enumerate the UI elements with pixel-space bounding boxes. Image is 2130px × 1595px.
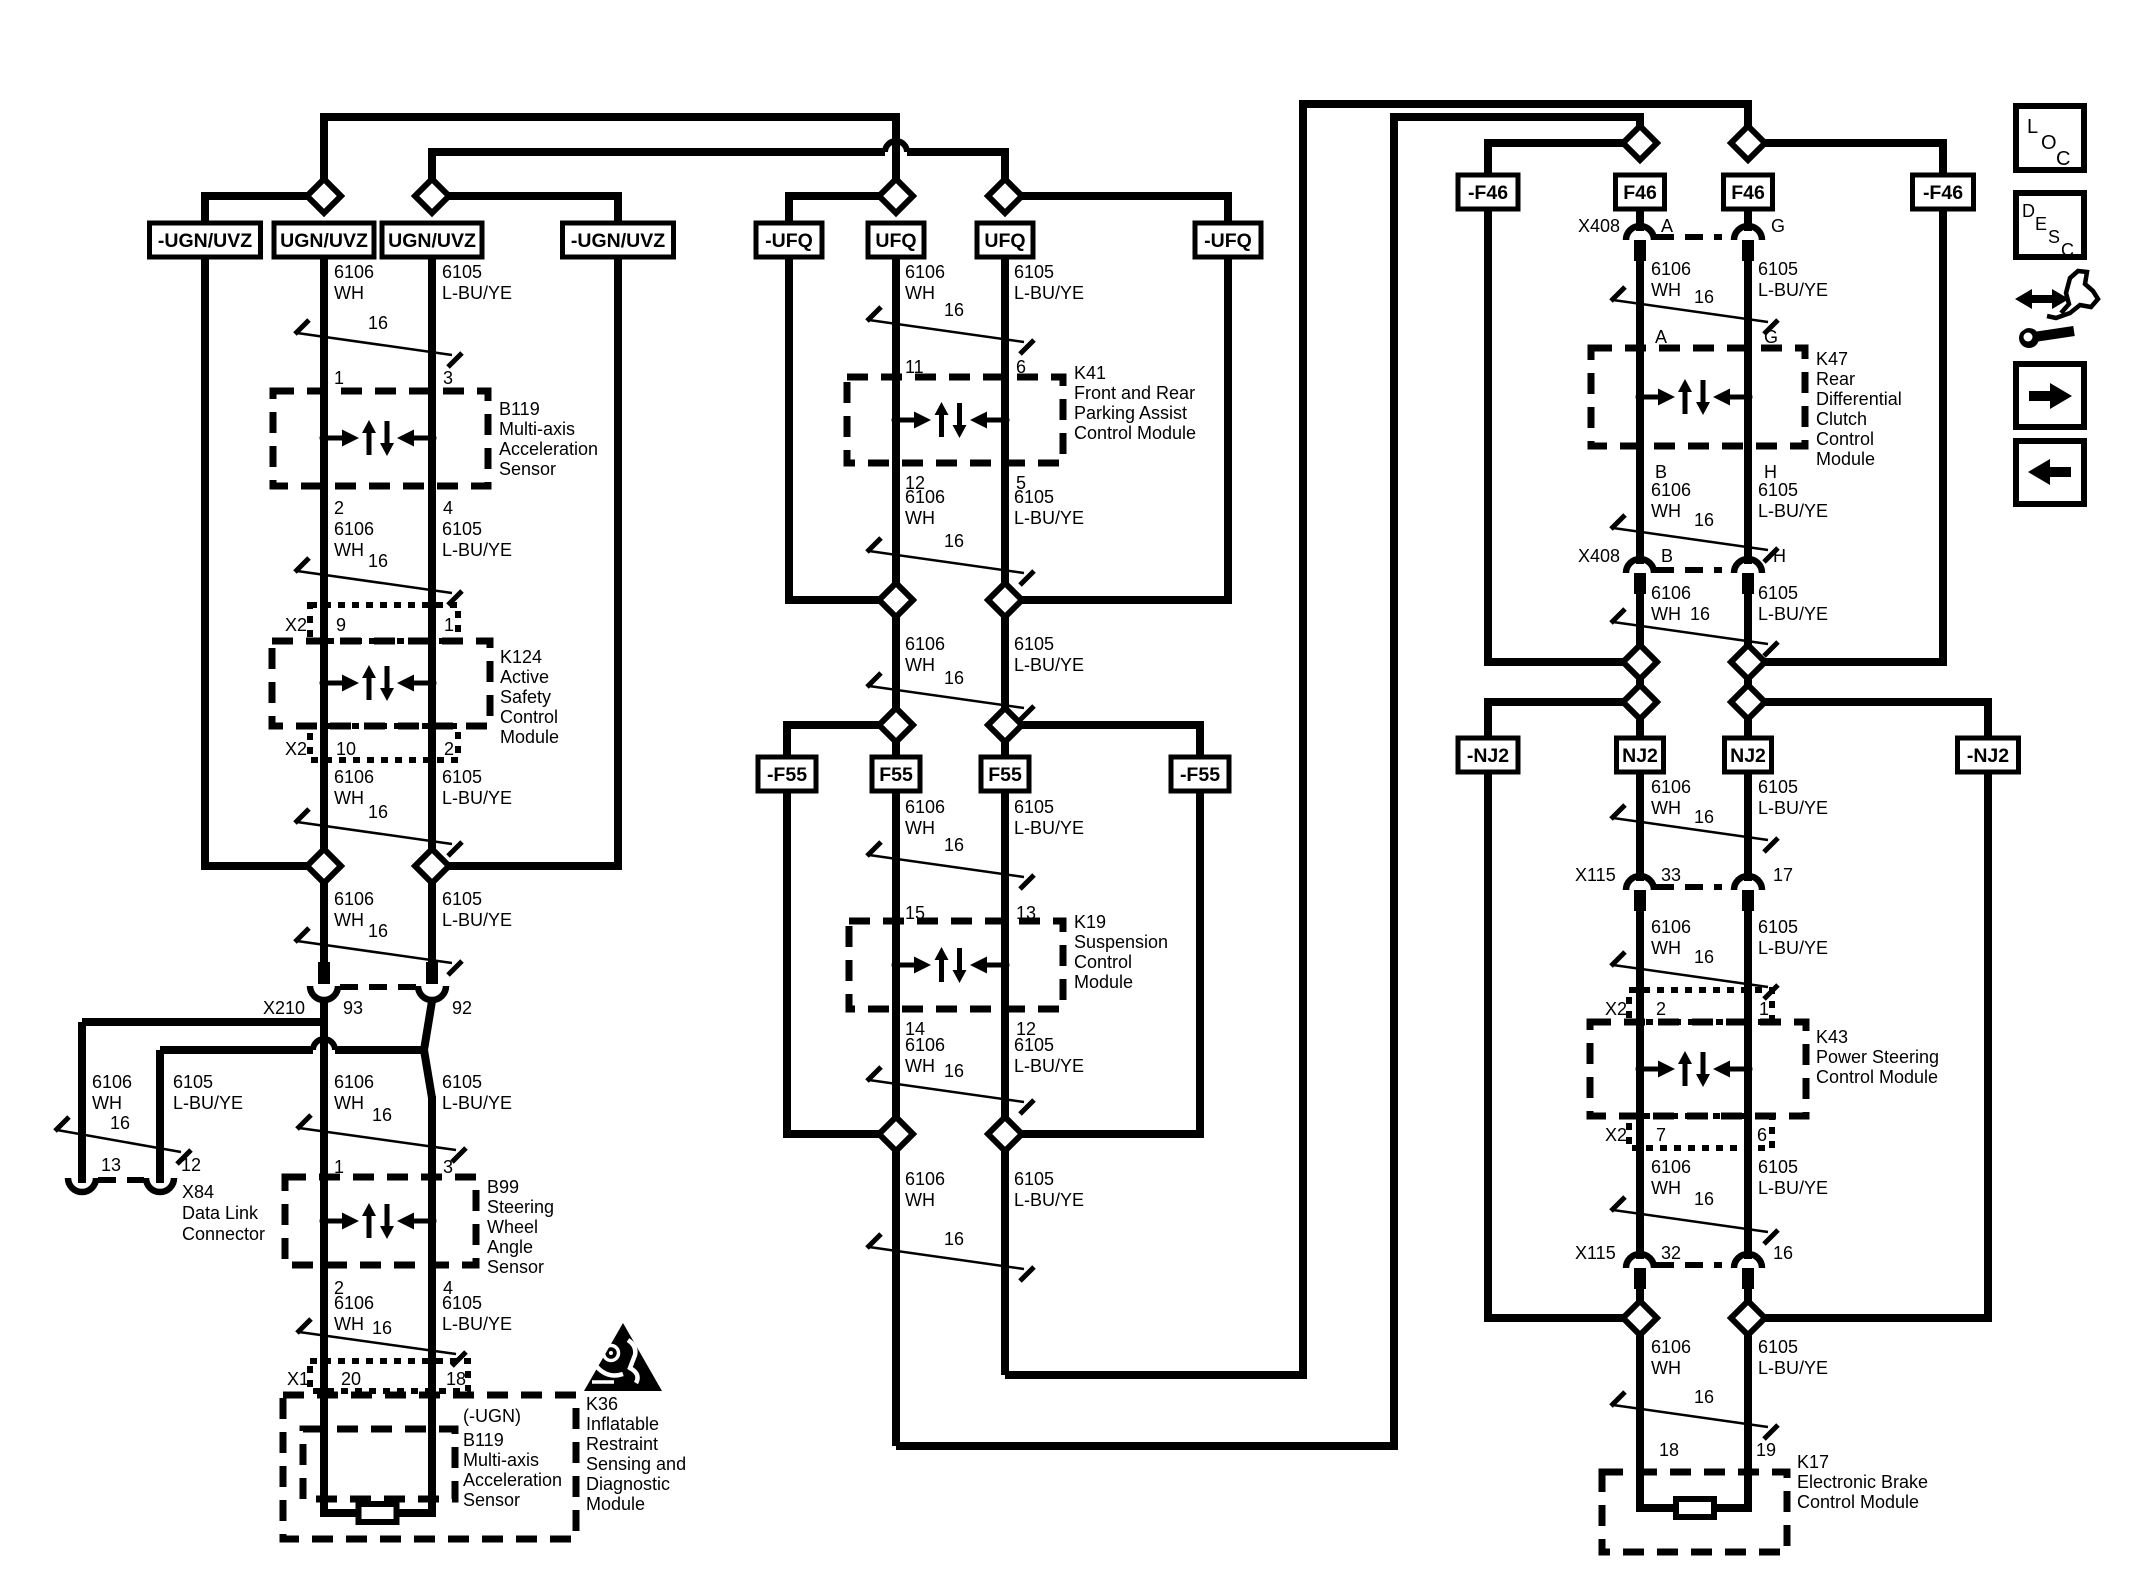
svg-text:6106: 6106	[334, 1072, 374, 1092]
svg-text:WH: WH	[1651, 1178, 1681, 1198]
svg-text:6105: 6105	[1758, 480, 1798, 500]
svg-text:6105: 6105	[1014, 634, 1054, 654]
twisted pair symbol 16	[297, 1115, 311, 1129]
wire -UFQ left return	[789, 257, 896, 600]
svg-text:13: 13	[101, 1155, 121, 1175]
svg-text:NJ2: NJ2	[1730, 745, 1766, 767]
svg-text:1: 1	[1759, 999, 1769, 1019]
svg-text:K19: K19	[1074, 912, 1106, 932]
svg-text:16: 16	[1694, 1387, 1714, 1407]
svg-text:2: 2	[444, 739, 454, 759]
wire NJ2 branch to -NJ2 right	[1748, 702, 1988, 738]
svg-text:WH: WH	[1651, 604, 1681, 624]
svg-text:O: O	[2041, 132, 2057, 154]
svg-text:Sensing and: Sensing and	[586, 1454, 686, 1474]
twisted pair symbol	[1611, 1197, 1625, 1211]
svg-text:X408: X408	[1578, 216, 1620, 236]
svg-text:6106: 6106	[334, 767, 374, 787]
svg-text:L-BU/YE: L-BU/YE	[1014, 283, 1084, 303]
svg-text:X2: X2	[285, 739, 307, 759]
svg-text:18: 18	[1659, 1440, 1679, 1460]
net box -F55 left	[758, 757, 816, 791]
wire F55 branch to -F55 right	[1005, 725, 1200, 757]
svg-text:Control Module: Control Module	[1797, 1492, 1919, 1512]
wire 6106 below X210 to K36	[320, 1001, 328, 1513]
icon left arrow box	[2016, 441, 2084, 504]
svg-text:6: 6	[1757, 1125, 1767, 1145]
svg-text:Control: Control	[1074, 952, 1132, 972]
wire -UFQ right return	[1005, 257, 1228, 600]
connector X210 pin 92	[426, 962, 438, 984]
svg-text:Sensor: Sensor	[463, 1490, 520, 1510]
svg-text:6106: 6106	[1651, 1157, 1691, 1177]
svg-text:WH: WH	[334, 540, 364, 560]
wire -NJ2 left return	[1488, 772, 1640, 1318]
svg-text:4: 4	[443, 498, 453, 518]
wire -F46 left return	[1488, 209, 1640, 662]
svg-text:L-BU/YE: L-BU/YE	[442, 910, 512, 930]
svg-text:Acceleration: Acceleration	[499, 439, 598, 459]
connector X210 pin 93	[318, 962, 330, 984]
sensor B119 inner box in K36	[303, 1429, 455, 1499]
svg-text:6106: 6106	[905, 1035, 945, 1055]
svg-text:-F55: -F55	[1180, 764, 1220, 786]
svg-text:6106: 6106	[334, 519, 374, 539]
svg-text:Active: Active	[500, 667, 549, 687]
svg-text:16: 16	[1694, 510, 1714, 530]
splice diamond F55 6105 top	[988, 708, 1022, 742]
svg-text:-UFQ: -UFQ	[1204, 230, 1252, 252]
svg-text:G: G	[1771, 216, 1785, 236]
svg-text:WH: WH	[905, 1056, 935, 1076]
svg-text:X2: X2	[1605, 1125, 1627, 1145]
svg-text:-F46: -F46	[1468, 182, 1508, 204]
wire branch to -UGN/UVZ left	[205, 196, 324, 224]
svg-text:Connector: Connector	[182, 1224, 265, 1244]
splice diamond -F46 6105	[1731, 645, 1765, 679]
svg-text:16: 16	[368, 921, 388, 941]
svg-text:Module: Module	[1074, 972, 1133, 992]
svg-text:Control Module: Control Module	[1074, 423, 1196, 443]
svg-text:6105: 6105	[1014, 262, 1054, 282]
svg-text:Module: Module	[500, 727, 559, 747]
svg-text:X84: X84	[182, 1182, 214, 1202]
svg-text:-NJ2: -NJ2	[1467, 745, 1509, 767]
twisted pair symbol 16	[295, 809, 309, 823]
svg-text:6106: 6106	[905, 262, 945, 282]
resistor element in K36	[359, 1504, 397, 1522]
svg-text:Acceleration: Acceleration	[463, 1470, 562, 1490]
svg-text:Multi-axis: Multi-axis	[463, 1450, 539, 1470]
connector X2 top of K124	[310, 605, 458, 641]
svg-text:L-BU/YE: L-BU/YE	[442, 788, 512, 808]
splice diamond left 6105 lower	[415, 849, 449, 883]
sensor B99 Steering Wheel Angle Sensor box	[285, 1177, 476, 1265]
svg-text:D: D	[2022, 201, 2035, 221]
svg-text:Module: Module	[586, 1494, 645, 1514]
airbag warning triangle	[584, 1323, 662, 1391]
module K41 Front and Rear Parking Assist Control Module box	[847, 377, 1063, 463]
splice diamond 6105 top-left	[415, 179, 449, 213]
connector X115 pin 16	[1734, 1254, 1762, 1268]
svg-text:16: 16	[1694, 287, 1714, 307]
svg-text:10: 10	[336, 739, 356, 759]
twisted pair symbol	[1611, 805, 1625, 819]
svg-text:6105: 6105	[1758, 259, 1798, 279]
svg-text:F55: F55	[879, 764, 913, 786]
svg-text:16: 16	[372, 1105, 392, 1125]
B119 arrows	[320, 420, 437, 456]
svg-text:Rear: Rear	[1816, 369, 1855, 389]
svg-text:Restraint: Restraint	[586, 1434, 658, 1454]
svg-text:WH: WH	[334, 1093, 364, 1113]
svg-text:12: 12	[181, 1155, 201, 1175]
twisted pair symbol 16	[295, 558, 309, 572]
svg-text:H: H	[1764, 462, 1777, 482]
net box -F46 right	[1913, 175, 1974, 209]
icon DESC box	[2016, 193, 2084, 257]
svg-text:6105: 6105	[1014, 797, 1054, 817]
icon right arrow box	[2016, 364, 2084, 427]
svg-text:UGN/UVZ: UGN/UVZ	[388, 230, 476, 252]
net box -UGN/UVZ right	[563, 223, 674, 257]
svg-text:3: 3	[443, 1157, 453, 1177]
svg-text:6106: 6106	[334, 1293, 374, 1313]
svg-text:16: 16	[368, 551, 388, 571]
svg-text:X2: X2	[285, 615, 307, 635]
svg-text:L-BU/YE: L-BU/YE	[1014, 1190, 1084, 1210]
twisted pair symbol 16	[867, 307, 881, 321]
svg-text:WH: WH	[905, 283, 935, 303]
svg-text:UGN/UVZ: UGN/UVZ	[280, 230, 368, 252]
wire F46 branch to -F46 left	[1488, 143, 1640, 175]
svg-text:WH: WH	[905, 508, 935, 528]
wire X84 6106 branch horizontal	[82, 1018, 324, 1026]
twisted pair symbol	[1611, 609, 1625, 623]
svg-text:Control Module: Control Module	[1816, 1067, 1938, 1087]
svg-text:-UGN/UVZ: -UGN/UVZ	[571, 230, 665, 252]
resistor element in K17	[1676, 1499, 1714, 1517]
svg-text:6105: 6105	[442, 767, 482, 787]
twisted pair symbol 16	[295, 928, 309, 942]
svg-text:H: H	[1773, 546, 1786, 566]
splice diamond F55 6105 bottom	[988, 1117, 1022, 1151]
svg-text:B: B	[1661, 546, 1673, 566]
svg-text:16: 16	[944, 1061, 964, 1081]
svg-text:6105: 6105	[1014, 1035, 1054, 1055]
svg-text:L-BU/YE: L-BU/YE	[1758, 1358, 1828, 1378]
svg-text:2: 2	[334, 498, 344, 518]
svg-text:Module: Module	[1816, 449, 1875, 469]
module K17 Electronic Brake Control Module box	[1602, 1472, 1787, 1552]
connector X408 pin B	[1626, 559, 1654, 573]
twisted pair symbol 16	[867, 673, 881, 687]
net box -UFQ left	[756, 223, 822, 257]
svg-text:Parking Assist: Parking Assist	[1074, 403, 1187, 423]
icon LOC box	[2016, 106, 2084, 170]
net box UFQ 6106	[868, 223, 924, 257]
svg-text:16: 16	[944, 531, 964, 551]
svg-text:K47: K47	[1816, 349, 1848, 369]
svg-text:WH: WH	[92, 1093, 122, 1113]
svg-text:-UGN/UVZ: -UGN/UVZ	[158, 230, 252, 252]
svg-text:F55: F55	[988, 764, 1022, 786]
splice diamond UFQ 6106	[879, 179, 913, 213]
svg-text:Power Steering: Power Steering	[1816, 1047, 1939, 1067]
svg-text:L-BU/YE: L-BU/YE	[173, 1093, 243, 1113]
svg-text:WH: WH	[1651, 1358, 1681, 1378]
splice diamond -UFQ 6105 bottom	[988, 583, 1022, 617]
svg-text:6105: 6105	[442, 1072, 482, 1092]
splice diamond NJ2 6105	[1731, 685, 1765, 719]
K124 arrows	[320, 665, 437, 701]
svg-text:WH: WH	[905, 655, 935, 675]
svg-text:6105: 6105	[442, 1293, 482, 1313]
wire 6105 bottom loop to right section	[1005, 104, 1748, 1375]
svg-text:6106: 6106	[1651, 480, 1691, 500]
twisted pair symbol 16	[295, 320, 309, 334]
svg-text:6106: 6106	[905, 634, 945, 654]
svg-text:16: 16	[944, 300, 964, 320]
svg-text:-NJ2: -NJ2	[1967, 745, 2009, 767]
splice diamond NJ2 6106	[1623, 685, 1657, 719]
net box NJ2 6105	[1725, 738, 1772, 772]
wire 6106 WH left column	[320, 257, 328, 966]
svg-text:C: C	[2056, 148, 2070, 170]
svg-text:Control: Control	[1816, 429, 1874, 449]
connector X408 dashed link 2	[1656, 567, 1722, 573]
svg-text:WH: WH	[334, 910, 364, 930]
module K43 Power Steering Control Module box	[1590, 1022, 1806, 1116]
net box -NJ2 left	[1458, 738, 1518, 772]
svg-text:L: L	[2027, 116, 2038, 138]
svg-text:Suspension: Suspension	[1074, 932, 1168, 952]
svg-text:NJ2: NJ2	[1622, 745, 1658, 767]
svg-text:L-BU/YE: L-BU/YE	[442, 540, 512, 560]
svg-text:Sensor: Sensor	[499, 459, 556, 479]
svg-text:Inflatable: Inflatable	[586, 1414, 659, 1434]
svg-text:6105: 6105	[173, 1072, 213, 1092]
svg-text:B119: B119	[463, 1430, 504, 1450]
svg-text:32: 32	[1661, 1243, 1681, 1263]
svg-text:X408: X408	[1578, 546, 1620, 566]
svg-text:F46: F46	[1623, 182, 1657, 204]
connector X115 dashed link	[1656, 884, 1722, 890]
connector X115 pin 17	[1734, 876, 1762, 890]
svg-text:7: 7	[1656, 1125, 1666, 1145]
connector X2 bottom of K43	[1629, 1116, 1772, 1148]
twisted pair symbol	[1611, 1392, 1625, 1406]
connector X2 top of K43	[1629, 990, 1772, 1022]
splice diamond 6106 top-left	[307, 179, 341, 213]
svg-text:(-UGN): (-UGN)	[463, 1406, 521, 1426]
svg-text:WH: WH	[905, 818, 935, 838]
twisted pair symbol 16	[867, 842, 881, 856]
svg-text:B119: B119	[499, 399, 540, 419]
svg-text:6106: 6106	[1651, 1337, 1691, 1357]
splice diamond F46 6105 top	[1731, 126, 1765, 160]
svg-text:K124: K124	[500, 647, 542, 667]
net box NJ2 6106	[1617, 738, 1664, 772]
svg-text:6106: 6106	[334, 262, 374, 282]
svg-text:B: B	[1655, 462, 1667, 482]
svg-text:X2: X2	[1605, 999, 1627, 1019]
svg-text:16: 16	[944, 668, 964, 688]
connector X115 pin 32	[1626, 1254, 1654, 1268]
connector X210 dashed link	[340, 984, 416, 990]
splice diamond UFQ 6105	[988, 179, 1022, 213]
svg-text:Wheel: Wheel	[487, 1217, 538, 1237]
net box UGN/UVZ 6105	[382, 223, 482, 257]
net box F46 6105	[1724, 175, 1773, 209]
wire F55 branch to -F55 left	[787, 725, 896, 757]
net box UFQ 6105	[977, 223, 1033, 257]
twisted pair symbol	[1611, 515, 1625, 529]
svg-text:6105: 6105	[1758, 777, 1798, 797]
connector X84 terminals	[68, 1178, 96, 1192]
connector X408 pin A	[1626, 226, 1654, 240]
splice diamond left 6106 lower	[307, 849, 341, 883]
svg-text:20: 20	[341, 1369, 361, 1389]
connector X2 bottom of K124	[310, 726, 458, 760]
svg-text:Steering: Steering	[487, 1197, 554, 1217]
wire F46 branch to -F46 right	[1748, 143, 1943, 175]
wire 6105 L-BU/YE middle column	[1001, 257, 1009, 1375]
svg-text:33: 33	[1661, 865, 1681, 885]
svg-text:1: 1	[334, 368, 344, 388]
svg-text:X210: X210	[263, 998, 305, 1018]
wire 6105 L-BU/YE left column	[428, 257, 436, 966]
svg-text:19: 19	[1756, 1440, 1776, 1460]
svg-text:WH: WH	[1651, 501, 1681, 521]
module K19 Suspension Control Module box	[849, 921, 1063, 1009]
svg-text:92: 92	[452, 998, 472, 1018]
svg-text:Electronic Brake: Electronic Brake	[1797, 1472, 1928, 1492]
svg-text:6106: 6106	[1651, 917, 1691, 937]
svg-text:WH: WH	[1651, 938, 1681, 958]
svg-text:16: 16	[1694, 947, 1714, 967]
svg-text:L-BU/YE: L-BU/YE	[1758, 1178, 1828, 1198]
svg-text:Angle: Angle	[487, 1237, 533, 1257]
icon wrench	[2012, 318, 2074, 348]
net box F46 6106	[1616, 175, 1665, 209]
svg-text:L-BU/YE: L-BU/YE	[1014, 508, 1084, 528]
K19 arrows	[892, 947, 1010, 983]
svg-text:6106: 6106	[334, 889, 374, 909]
svg-text:16: 16	[368, 313, 388, 333]
splice diamond -NJ2 6106 bottom	[1623, 1301, 1657, 1335]
svg-text:1: 1	[444, 615, 454, 635]
svg-text:6106: 6106	[92, 1072, 132, 1092]
wire -UGN/UVZ left return	[205, 257, 324, 866]
svg-text:WH: WH	[1651, 280, 1681, 300]
svg-text:L-BU/YE: L-BU/YE	[1758, 604, 1828, 624]
svg-text:L-BU/YE: L-BU/YE	[1758, 280, 1828, 300]
twisted pair symbol 16	[867, 538, 881, 552]
svg-text:Data Link: Data Link	[182, 1203, 259, 1223]
svg-text:16: 16	[1694, 1189, 1714, 1209]
connector X1 of K36	[310, 1361, 468, 1391]
svg-text:Diagnostic: Diagnostic	[586, 1474, 670, 1494]
wire 6106 WH right column	[1636, 209, 1644, 231]
svg-text:K41: K41	[1074, 363, 1106, 383]
svg-text:WH: WH	[334, 283, 364, 303]
svg-text:Clutch: Clutch	[1816, 409, 1867, 429]
svg-text:K17: K17	[1797, 1452, 1829, 1472]
svg-text:K36: K36	[586, 1394, 618, 1414]
B99 arrows	[320, 1203, 437, 1239]
net box -UGN/UVZ left	[150, 223, 261, 257]
wire -F55 left return	[787, 791, 896, 1134]
connector X115 dashed link 2	[1656, 1262, 1722, 1268]
wire 6105 second bus with hop over 6106 drop	[432, 152, 885, 196]
svg-text:L-BU/YE: L-BU/YE	[1014, 818, 1084, 838]
svg-text:Control: Control	[500, 707, 558, 727]
svg-text:X115: X115	[1575, 865, 1616, 885]
svg-text:18: 18	[446, 1369, 466, 1389]
svg-text:Front and Rear: Front and Rear	[1074, 383, 1195, 403]
svg-text:WH: WH	[1651, 798, 1681, 818]
svg-text:6106: 6106	[905, 1169, 945, 1189]
connector X408 pin H	[1734, 559, 1762, 573]
module K47 Rear Differential Clutch Control Module box	[1591, 348, 1805, 446]
svg-text:X115: X115	[1575, 1243, 1616, 1263]
svg-text:L-BU/YE: L-BU/YE	[442, 283, 512, 303]
wire NJ2 branch to -NJ2 left	[1488, 702, 1640, 738]
net box UGN/UVZ 6106	[274, 223, 374, 257]
module K124 Active Safety Control Module box	[272, 641, 490, 726]
wire -F46 right return	[1748, 209, 1943, 662]
svg-text:K43: K43	[1816, 1027, 1848, 1047]
svg-text:6105: 6105	[1758, 1337, 1798, 1357]
net box -F46 left	[1458, 175, 1518, 209]
wire -NJ2 right return	[1748, 772, 1988, 1318]
wire X84 6105 branch horizontal with hop	[160, 1046, 313, 1054]
wire 6106 WH middle column	[892, 257, 900, 1446]
svg-text:6105: 6105	[442, 889, 482, 909]
twisted pair symbol 16	[297, 1319, 311, 1333]
svg-text:G: G	[1764, 327, 1778, 347]
wire UFQ branch to -UFQ right	[1005, 196, 1228, 224]
wire K36 internal link with resistor	[320, 1509, 359, 1517]
svg-text:Sensor: Sensor	[487, 1257, 544, 1277]
svg-text:6105: 6105	[442, 262, 482, 282]
svg-text:6105: 6105	[442, 519, 482, 539]
net box F55 6106	[872, 757, 920, 791]
svg-text:6106: 6106	[1651, 583, 1691, 603]
svg-text:Multi-axis: Multi-axis	[499, 419, 575, 439]
icon harness double arrow with connector outline	[2015, 271, 2098, 318]
splice diamond F55 6106 bottom	[879, 1117, 913, 1151]
svg-text:93: 93	[343, 998, 363, 1018]
connector X408 pin G	[1734, 226, 1762, 240]
K41 arrows	[892, 402, 1010, 438]
svg-text:UFQ: UFQ	[984, 230, 1025, 252]
svg-text:17: 17	[1773, 865, 1793, 885]
svg-text:16: 16	[1773, 1243, 1793, 1263]
svg-text:C: C	[2061, 240, 2074, 260]
svg-text:WH: WH	[334, 1314, 364, 1334]
svg-text:6105: 6105	[1014, 1169, 1054, 1189]
connector X408 dashed link	[1656, 234, 1722, 240]
K43 arrows	[1636, 1051, 1753, 1087]
svg-text:3: 3	[443, 368, 453, 388]
svg-text:L-BU/YE: L-BU/YE	[1014, 1056, 1084, 1076]
splice diamond -F46 6106	[1623, 645, 1657, 679]
twisted pair symbol 16	[867, 1234, 881, 1248]
svg-text:L-BU/YE: L-BU/YE	[1014, 655, 1084, 675]
svg-text:6105: 6105	[1758, 1157, 1798, 1177]
